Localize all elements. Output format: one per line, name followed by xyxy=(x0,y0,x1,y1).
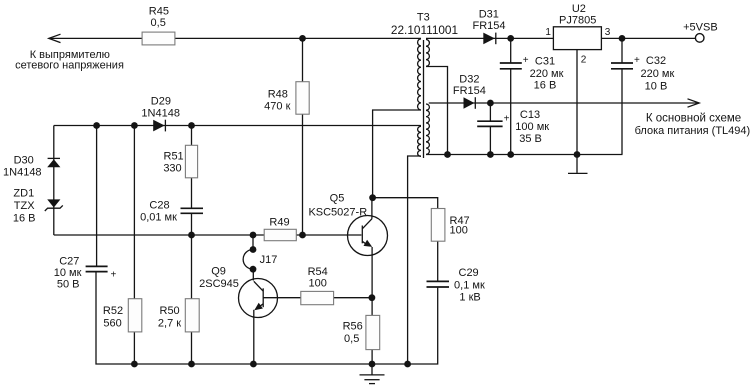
capacitor C28 xyxy=(181,207,204,209)
svg-text:1N4148: 1N4148 xyxy=(141,108,180,120)
junction R50 bottom xyxy=(188,361,195,368)
junction C32 top xyxy=(619,35,626,42)
wire U2 pin3 to terminal xyxy=(601,37,695,39)
junction Q5 collector xyxy=(369,194,376,201)
svg-text:560: 560 xyxy=(103,317,121,329)
svg-text:C31: C31 xyxy=(535,55,555,67)
svg-text:сетевого напряжения: сетевого напряжения xyxy=(15,60,124,72)
svg-text:блока питания (TL494): блока питания (TL494) xyxy=(635,125,751,137)
svg-text:+: + xyxy=(111,269,117,280)
arrow to TL494 xyxy=(688,99,700,107)
diode D32 xyxy=(464,97,475,109)
wire R47 to C29 xyxy=(437,241,439,281)
svg-text:Q9: Q9 xyxy=(211,265,226,277)
resistor R50 xyxy=(185,299,199,332)
svg-text:R50: R50 xyxy=(160,305,180,317)
svg-text:J17: J17 xyxy=(260,254,278,266)
svg-text:D31: D31 xyxy=(479,8,499,20)
svg-text:C27: C27 xyxy=(59,255,79,267)
resistor R56 xyxy=(366,315,380,349)
svg-text:R45: R45 xyxy=(149,6,169,18)
transistor Q5 xyxy=(348,216,388,256)
diode D30 xyxy=(47,159,60,167)
resistor R54 xyxy=(301,291,334,304)
junction J17 top node xyxy=(250,232,257,239)
svg-text:0,5: 0,5 xyxy=(344,333,359,345)
wire C13 column xyxy=(489,103,491,121)
svg-text:FR154: FR154 xyxy=(472,20,505,32)
resistor R52 xyxy=(128,299,142,332)
transistor Q9 xyxy=(239,279,278,318)
svg-text:2,7 к: 2,7 к xyxy=(158,317,181,329)
svg-text:D30: D30 xyxy=(14,154,34,166)
wire U2 pin2 column xyxy=(576,50,578,155)
transformer T3 primary winding 2 xyxy=(418,126,421,156)
svg-text:R56: R56 xyxy=(343,320,363,332)
junction R52 bottom xyxy=(131,361,138,368)
resistor R49 xyxy=(264,229,296,240)
transformer T3 secondary winding 1 xyxy=(426,40,429,67)
svg-text:2SC945: 2SC945 xyxy=(199,278,239,290)
wire primary1 bottom to Q5 collector xyxy=(373,110,421,198)
svg-text:10 В: 10 В xyxy=(645,80,668,92)
svg-text:Q5: Q5 xyxy=(330,192,345,204)
junction R56 bottom ground xyxy=(369,361,376,368)
terminal +5VSB xyxy=(695,34,704,43)
junction R48 top xyxy=(299,35,306,42)
svg-text:C29: C29 xyxy=(459,267,479,279)
wire Q5 collector to R47 xyxy=(373,198,438,209)
wire C27 column top xyxy=(96,126,98,267)
wire secondary bus y=154.5 xyxy=(426,154,623,156)
junction primary-2 return xyxy=(404,361,411,368)
svg-text:0,01 мк: 0,01 мк xyxy=(140,211,177,223)
wire D30 ZD1 column xyxy=(53,126,55,236)
wire upper secondary bottom xyxy=(426,67,448,155)
junction C31 bottom xyxy=(507,151,514,158)
ground main xyxy=(360,374,385,376)
svg-text:R48: R48 xyxy=(268,89,288,101)
svg-text:1 кВ: 1 кВ xyxy=(459,292,480,304)
svg-text:470 к: 470 к xyxy=(264,100,290,112)
wire main bus y=125.5 xyxy=(54,125,421,127)
voltage regulator U2 xyxy=(553,27,601,50)
resistor R47 xyxy=(431,209,445,242)
svg-text:330: 330 xyxy=(163,163,181,175)
svg-text:10 мк: 10 мк xyxy=(54,267,82,279)
junction R48 bottom Q5 base xyxy=(299,232,306,239)
svg-text:TZX: TZX xyxy=(14,200,35,212)
svg-text:R52: R52 xyxy=(103,305,123,317)
wire D32 line y=103 xyxy=(429,102,699,104)
capacitor C13 xyxy=(477,120,502,122)
junction U2 pin2 ground node xyxy=(574,151,581,158)
svg-text:R51: R51 xyxy=(164,151,184,163)
wire R51 C28 R50 column xyxy=(191,126,193,209)
svg-text:+: + xyxy=(634,55,640,66)
diode D31 xyxy=(483,33,495,45)
wire top y=38.4 from transformer to U2 pin1 xyxy=(426,37,553,39)
wire C31 column xyxy=(510,38,512,62)
svg-text:К основной схеме: К основной схеме xyxy=(646,112,741,124)
transformer T3 core xyxy=(423,40,425,158)
wire C32 column xyxy=(621,38,623,62)
capacitor C29 xyxy=(427,280,450,282)
svg-text:ZD1: ZD1 xyxy=(13,187,34,199)
svg-text:KSC5027-R: KSC5027-R xyxy=(308,206,367,218)
junction C31 top xyxy=(507,35,514,42)
svg-text:1: 1 xyxy=(545,27,551,38)
junction C27 top xyxy=(93,122,100,129)
wire Q5 emitter down xyxy=(371,247,373,364)
svg-text:22.10111001: 22.10111001 xyxy=(391,23,458,37)
wire R52 column xyxy=(133,126,135,365)
capacitor C27 xyxy=(86,265,108,267)
junction D32 cathode C13 xyxy=(487,100,494,107)
junction C13 bottom xyxy=(487,151,494,158)
wire zd bus y=235 xyxy=(54,234,362,236)
svg-text:1N4148: 1N4148 xyxy=(3,167,42,179)
wire C29 to bottom bus xyxy=(96,272,438,364)
svg-text:R49: R49 xyxy=(269,216,289,228)
capacitor C32 xyxy=(611,62,633,64)
svg-text:U2: U2 xyxy=(572,3,586,15)
svg-text:D29: D29 xyxy=(151,95,171,107)
junction R54 right xyxy=(369,294,376,301)
svg-text:100: 100 xyxy=(450,225,468,237)
svg-text:FR154: FR154 xyxy=(453,85,486,97)
svg-text:C28: C28 xyxy=(149,199,169,211)
svg-text:16 В: 16 В xyxy=(13,213,36,225)
wire primary2 bottom xyxy=(408,156,421,364)
svg-text:C32: C32 xyxy=(646,55,666,67)
zener ZD1 xyxy=(47,199,60,207)
wire Q9 emitter down xyxy=(253,310,255,364)
jumper J17 arc xyxy=(243,250,253,270)
wire R48 column xyxy=(302,38,304,235)
svg-text:PJ7805: PJ7805 xyxy=(559,14,596,26)
svg-text:50 В: 50 В xyxy=(57,279,80,291)
junction Q9 emitter bottom xyxy=(250,361,257,368)
svg-text:3: 3 xyxy=(605,27,611,38)
resistor R48 xyxy=(296,82,309,115)
svg-text:2: 2 xyxy=(581,54,587,65)
capacitor C31 xyxy=(500,62,522,64)
svg-text:0,1 мк: 0,1 мк xyxy=(454,280,485,292)
svg-text:16 В: 16 В xyxy=(534,79,557,91)
svg-text:D32: D32 xyxy=(459,73,479,85)
svg-text:0,5: 0,5 xyxy=(151,17,166,29)
arrow to rectifier xyxy=(49,34,61,42)
svg-text:35 В: 35 В xyxy=(519,133,542,145)
transformer T3 secondary winding 2 xyxy=(426,104,429,154)
ground U2 xyxy=(576,155,578,173)
junction R51 top xyxy=(188,122,195,129)
junction C28 bottom xyxy=(188,232,195,239)
svg-text:C13: C13 xyxy=(520,109,540,121)
diode D29 xyxy=(153,120,164,132)
transformer T3 primary winding 1 xyxy=(418,39,421,110)
svg-text:100: 100 xyxy=(309,278,327,290)
svg-text:220 мк: 220 мк xyxy=(641,68,675,80)
junction secondary-1 return xyxy=(444,151,451,158)
wire Q9 base R54 xyxy=(263,297,372,299)
svg-text:+: + xyxy=(523,55,529,66)
svg-text:T3: T3 xyxy=(417,12,430,24)
wire top main y=38.4 left section xyxy=(49,37,421,39)
junction R52 top xyxy=(131,122,138,129)
resistor R51 xyxy=(185,145,197,178)
svg-text:100 мк: 100 мк xyxy=(515,121,549,133)
wire J17 to Q9 collector xyxy=(252,235,254,250)
svg-text:+5VSB: +5VSB xyxy=(683,22,718,34)
svg-text:+: + xyxy=(504,113,510,124)
svg-text:R54: R54 xyxy=(308,266,328,278)
resistor R45 xyxy=(142,32,175,45)
